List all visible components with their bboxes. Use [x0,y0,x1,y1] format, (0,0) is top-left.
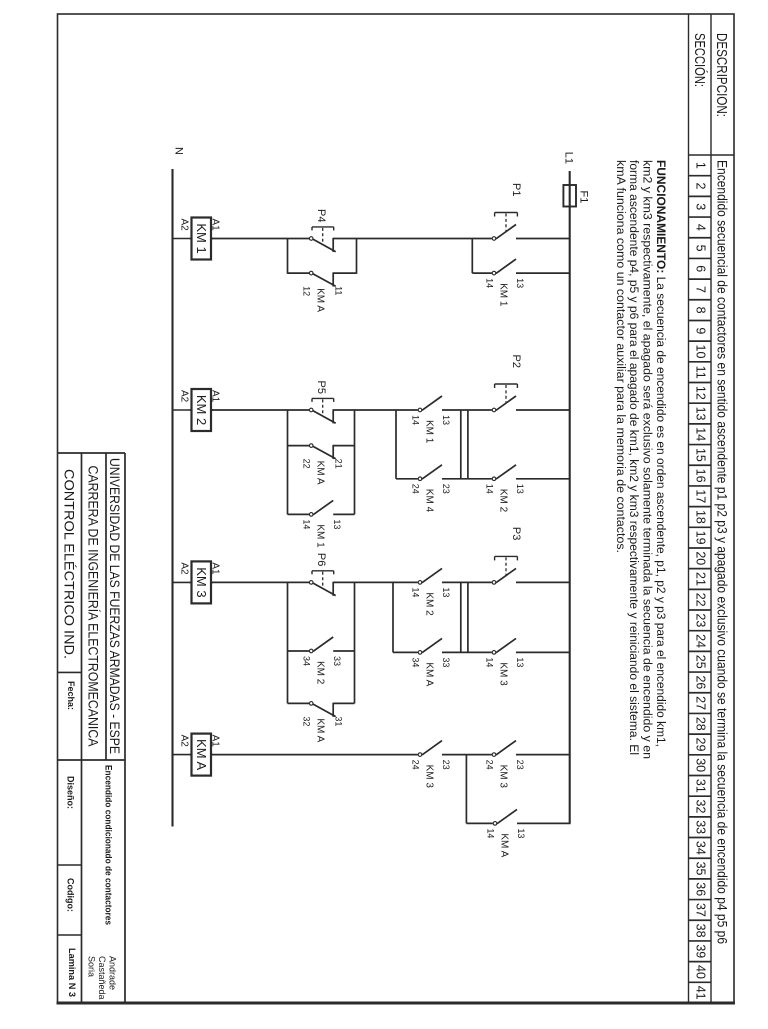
svg-text:24: 24 [485,760,495,770]
svg-text:DESCRIPCION:: DESCRIPCION: [713,33,729,117]
svg-text:P6: P6 [315,553,327,566]
svg-text:31: 31 [334,716,344,726]
svg-text:33: 33 [441,657,451,667]
svg-text:25: 25 [694,655,708,669]
svg-text:Lamina N 3: Lamina N 3 [67,948,77,997]
svg-text:14: 14 [302,519,312,529]
svg-text:KM A: KM A [315,718,326,742]
svg-text:19: 19 [694,531,708,545]
svg-text:2: 2 [694,183,708,190]
svg-text:14: 14 [485,484,495,494]
svg-text:31: 31 [694,779,708,793]
svg-text:36: 36 [694,882,708,896]
svg-text:13: 13 [441,587,451,597]
svg-text:forma ascendente p4, p5 y p6 p: forma ascendente p4, p5 y p6 para el apa… [627,160,641,755]
svg-text:1: 1 [694,162,708,169]
svg-text:33: 33 [332,656,342,666]
svg-text:28: 28 [694,717,708,731]
svg-text:10: 10 [694,345,708,359]
svg-text:KM A: KM A [315,288,326,312]
svg-text:21: 21 [334,459,344,469]
svg-text:13: 13 [332,519,342,529]
svg-text:KM 1: KM 1 [194,223,209,253]
svg-text:20: 20 [694,551,708,565]
svg-text:P4: P4 [315,209,327,222]
svg-text:17: 17 [694,489,708,503]
svg-text:37: 37 [694,903,708,917]
svg-text:A2: A2 [179,735,190,748]
svg-text:14: 14 [411,587,421,597]
svg-text:14: 14 [485,278,495,288]
svg-text:13: 13 [515,484,525,494]
svg-text:34: 34 [694,841,708,855]
svg-text:6: 6 [694,265,708,272]
svg-text:13: 13 [441,415,451,425]
svg-text:23: 23 [694,613,708,627]
svg-text:3: 3 [694,203,708,210]
svg-text:KM 1: KM 1 [498,283,509,307]
svg-text:KM A: KM A [424,662,435,686]
svg-text:P5: P5 [315,381,327,394]
svg-text:KM 2: KM 2 [194,395,209,425]
svg-text:13: 13 [516,828,526,838]
svg-text:A1: A1 [210,735,221,748]
svg-text:KM 3: KM 3 [194,567,209,597]
svg-text:30: 30 [694,758,708,772]
svg-text:23: 23 [515,760,525,770]
svg-text:35: 35 [694,862,708,876]
svg-text:13: 13 [694,407,708,421]
svg-text:Castañeda: Castañeda [97,956,107,1000]
svg-text:A1: A1 [210,390,221,403]
svg-text:A2: A2 [179,562,190,575]
svg-text:13: 13 [515,657,525,667]
svg-text:11: 11 [334,286,344,295]
svg-text:KM 2: KM 2 [424,592,435,616]
svg-text:P1: P1 [510,183,522,196]
svg-text:16: 16 [694,469,708,483]
svg-text:km2 y km3 respectivamente, el: km2 y km3 respectivamente, el apagado se… [641,160,655,759]
svg-text:KM 4: KM 4 [424,489,435,513]
svg-text:KM 1: KM 1 [424,420,435,444]
svg-text:A2: A2 [179,390,190,403]
svg-text:FUNCIONAMIENTO: La secuencia d: FUNCIONAMIENTO: La secuencia de encendid… [654,160,668,747]
svg-text:24: 24 [411,760,421,770]
svg-text:Andrade: Andrade [108,956,118,990]
svg-text:13: 13 [515,278,525,288]
svg-text:8: 8 [694,307,708,314]
svg-text:22: 22 [302,459,312,469]
svg-text:21: 21 [694,572,708,586]
svg-text:Encendido secuencial de contac: Encendido secuencial de contactores en s… [715,160,730,944]
svg-text:32: 32 [694,800,708,814]
svg-text:23: 23 [441,760,451,770]
svg-text:14: 14 [486,828,496,838]
svg-text:7: 7 [694,286,708,293]
svg-text:Encendido condicionado de cont: Encendido condicionado de contactores [103,765,114,925]
svg-text:F1: F1 [578,191,590,204]
svg-text:KM 1: KM 1 [315,524,326,548]
svg-text:14: 14 [694,427,708,441]
svg-text:KM 3: KM 3 [498,765,509,789]
svg-text:A1: A1 [210,562,221,575]
svg-text:32: 32 [302,716,312,726]
svg-text:N: N [173,147,185,155]
svg-text:26: 26 [694,675,708,689]
svg-text:40: 40 [694,965,708,979]
svg-text:11: 11 [694,366,708,379]
svg-text:4: 4 [694,224,708,231]
svg-text:A1: A1 [210,219,221,232]
svg-text:KM 3: KM 3 [424,765,435,789]
svg-text:29: 29 [694,738,708,752]
svg-text:24: 24 [411,484,421,494]
svg-text:33: 33 [694,820,708,834]
svg-text:A2: A2 [179,219,190,232]
svg-text:KM A: KM A [315,461,326,485]
svg-text:14: 14 [411,415,421,425]
svg-text:9: 9 [694,327,708,334]
svg-text:P2: P2 [510,355,522,368]
svg-text:Soria: Soria [87,956,97,977]
svg-text:Codigo:: Codigo: [66,878,76,912]
svg-text:14: 14 [485,657,495,667]
svg-text:18: 18 [694,510,708,524]
svg-text:Fecha:: Fecha: [66,681,76,710]
svg-text:KM 2: KM 2 [498,489,509,513]
svg-text:KM 3: KM 3 [498,662,509,686]
svg-text:L1: L1 [563,152,575,164]
svg-text:22: 22 [694,593,708,607]
svg-text:12: 12 [694,386,708,400]
svg-text:kmA funciona como un contactor: kmA funciona como un contactor auxiliar … [614,160,628,553]
svg-text:24: 24 [694,634,708,648]
svg-text:P3: P3 [510,527,522,540]
svg-text:34: 34 [411,657,421,667]
svg-text:34: 34 [302,656,312,666]
svg-text:41: 41 [694,986,708,1000]
svg-text:15: 15 [694,448,708,462]
svg-text:5: 5 [694,245,708,252]
svg-text:27: 27 [694,696,708,710]
svg-text:23: 23 [441,484,451,494]
svg-text:SECCIÓN:: SECCIÓN: [691,33,708,87]
svg-text:UNIVERSIDAD DE LAS FUERZAS ARM: UNIVERSIDAD DE LAS FUERZAS ARMADAS - ESP… [107,458,122,754]
svg-text:CONTROL ELÉCTRICO IND.: CONTROL ELÉCTRICO IND. [62,469,77,659]
svg-text:38: 38 [694,924,708,938]
svg-text:12: 12 [302,286,312,296]
svg-text:KM 2: KM 2 [315,661,326,685]
svg-text:KM A: KM A [194,739,209,770]
svg-text:39: 39 [694,944,708,958]
svg-text:Diseño:: Diseño: [66,776,76,809]
svg-text:KM A: KM A [499,833,510,857]
svg-text:CARRERA DE INGENIERÍA ELECTROM: CARRERA DE INGENIERÍA ELECTROMECANICA [86,466,101,747]
